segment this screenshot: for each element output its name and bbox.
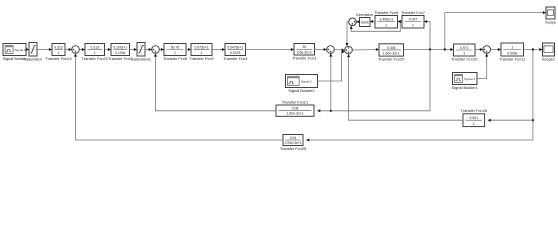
wire S3->S4 xyxy=(334,49,344,52)
wire TransferFcn26->S4 bottom xyxy=(347,54,463,120)
wire TransferFcn11->Scope1 xyxy=(524,48,543,51)
wire TransferFcn20->TransferFcn10 xyxy=(404,48,454,51)
junction node PD tap xyxy=(399,20,401,22)
svg-text:1: 1 xyxy=(511,45,513,49)
svg-text:60.76: 60.76 xyxy=(171,45,180,49)
wire SignalBuilder1->S6 bottom xyxy=(477,54,488,79)
svg-text:0.04: 0.04 xyxy=(290,136,297,140)
sum junction S3 xyxy=(327,46,335,54)
wire output branch down right side xyxy=(532,50,534,141)
wire bottom feedback to TransferFcn25 xyxy=(306,139,533,142)
svg-text:0.109s+1: 0.109s+1 xyxy=(113,45,127,49)
wire S2->TransferFcn5 xyxy=(159,48,164,51)
svg-text:1: 1 xyxy=(473,122,475,126)
transfer function 'Transfer Fcn3' xyxy=(223,44,247,61)
svg-text:Saturation1: Saturation1 xyxy=(131,56,151,61)
wire speed feedback branch down xyxy=(317,50,430,113)
scope 'Scope1' xyxy=(542,43,555,61)
junction node scope tap xyxy=(444,48,446,50)
transfer function 'Transfer Fcn20' xyxy=(378,44,405,62)
svg-text:2.94e-3s+1: 2.94e-3s+1 xyxy=(284,141,301,145)
signal builder 'Signal Builder' xyxy=(2,44,27,61)
transfer function 'Transfer Fcn5' xyxy=(163,44,187,61)
svg-text:Derivative: Derivative xyxy=(356,12,373,17)
wire Saturation->TransferFcn24 xyxy=(37,48,52,51)
svg-text:Transfer Fcn9: Transfer Fcn9 xyxy=(189,56,213,61)
svg-text:Transfer Fcn5: Transfer Fcn5 xyxy=(163,56,187,61)
junction node output tap xyxy=(532,48,534,50)
transfer function 'Transfer Fcn10' xyxy=(451,44,478,61)
transfer function 'Transfer Fcn24' xyxy=(45,44,72,61)
svg-text:Transfer Fcn26: Transfer Fcn26 xyxy=(461,108,487,113)
wire S4->TransferFcn20 xyxy=(352,48,379,51)
svg-text:0.075s+1: 0.075s+1 xyxy=(194,45,208,49)
wire TransferFcn22->TransferFcn2 xyxy=(105,48,112,51)
wire Derivative->S5 xyxy=(356,20,359,23)
wire TransferFcn8->Derivative xyxy=(370,20,375,23)
svg-text:0.0478: 0.0478 xyxy=(230,51,240,55)
svg-text:1: 1 xyxy=(94,51,96,55)
wire mid feedback to TransferFcn26 xyxy=(488,119,533,122)
scope 'Scope' xyxy=(545,7,556,24)
wire S5->S4 top xyxy=(346,22,349,46)
svg-text:Transfer Fcn8: Transfer Fcn8 xyxy=(374,10,398,15)
sum junction S2 xyxy=(152,46,160,54)
wire Saturation1->S2 xyxy=(145,48,152,51)
transfer function 'Transfer Fcn7' xyxy=(401,10,425,28)
transfer function 'Transfer Fcn21' (mirrored) xyxy=(276,99,314,116)
svg-text:Signal 1: Signal 1 xyxy=(464,77,475,81)
svg-text:1: 1 xyxy=(201,51,203,55)
svg-text:1: 1 xyxy=(174,51,176,55)
svg-text:1: 1 xyxy=(412,23,414,27)
wire TransferFcn1->S3 xyxy=(315,48,327,51)
wire SignalBuilder->Saturation xyxy=(26,48,29,51)
svg-text:Signal Builder1: Signal Builder1 xyxy=(452,85,478,90)
wire S1->TransferFcn22 xyxy=(79,48,85,51)
wire PD tap down to S5 bottom xyxy=(350,22,401,32)
sum junction S6 xyxy=(483,46,491,54)
transfer function 'Transfer Fcn26' (mirrored) xyxy=(461,108,487,126)
wire TransferFcn5->TransferFcn9 xyxy=(186,48,191,51)
junction node mid feedback xyxy=(532,119,534,121)
svg-text:1: 1 xyxy=(58,51,60,55)
signal builder 'Signal Builder2' xyxy=(286,75,318,93)
svg-text:Saturation: Saturation xyxy=(24,56,42,61)
wire TransferFcn9->TransferFcn3 xyxy=(212,48,225,51)
svg-text:0.005s: 0.005s xyxy=(507,51,517,55)
svg-text:Signal 1: Signal 1 xyxy=(15,48,26,52)
transfer function 'Transfer Fcn2' xyxy=(108,44,132,61)
svg-text:Transfer Fcn24: Transfer Fcn24 xyxy=(45,56,72,61)
wire TransferFcn3->TransferFcn1 xyxy=(246,48,295,51)
saturation 'Saturation' xyxy=(24,43,42,62)
svg-text:Transfer Fcn25: Transfer Fcn25 xyxy=(280,146,306,151)
svg-text:Scope: Scope xyxy=(545,19,556,24)
svg-text:Transfer Fcn2: Transfer Fcn2 xyxy=(108,56,132,61)
saturation 'Saturation1' xyxy=(131,43,151,62)
svg-text:1.60e-3s+1: 1.60e-3s+1 xyxy=(286,112,303,116)
svg-text:1: 1 xyxy=(463,51,465,55)
svg-text:Transfer Fcn10: Transfer Fcn10 xyxy=(451,56,478,61)
sum junction S5 xyxy=(349,18,357,26)
svg-text:3.459e-3: 3.459e-3 xyxy=(380,18,393,22)
svg-text:0.971: 0.971 xyxy=(460,46,469,50)
transfer function 'Transfer Fcn1' xyxy=(292,44,316,61)
wire tap->TransferFcn7 input xyxy=(424,20,430,50)
svg-text:Transfer Fcn3: Transfer Fcn3 xyxy=(223,56,247,61)
transfer function 'Transfer Fcn9' xyxy=(189,44,213,61)
transfer function 'Transfer Fcn11' xyxy=(499,43,525,61)
wire tap->Scope (top right) xyxy=(445,11,546,49)
svg-text:Transfer Fcn21: Transfer Fcn21 xyxy=(282,99,308,104)
transfer function 'Transfer Fcn22' xyxy=(82,44,108,61)
wire TransferFcn2->Saturation1 xyxy=(130,48,138,51)
svg-text:0.501: 0.501 xyxy=(470,116,479,120)
wire S6->TransferFcn11 xyxy=(491,48,502,51)
svg-text:Transfer Fcn20: Transfer Fcn20 xyxy=(378,57,405,62)
svg-text:0.045: 0.045 xyxy=(387,46,396,50)
junction node TF7 tap xyxy=(429,48,431,50)
wire TransferFcn24->S1 xyxy=(65,48,72,51)
wire SignalBuilder2->S4 xyxy=(318,50,345,81)
transfer function 'Transfer Fcn8' xyxy=(374,10,398,28)
junction node at TF21 branch xyxy=(330,110,332,112)
sum junction S1 xyxy=(72,46,80,54)
svg-text:Signal 2: Signal 2 xyxy=(301,79,312,83)
svg-text:1.60e-3s+1: 1.60e-3s+1 xyxy=(383,51,400,55)
svg-text:3.6e-3s+1: 3.6e-3s+1 xyxy=(297,50,312,54)
wire TransferFcn7->TransferFcn8 xyxy=(398,20,403,23)
svg-text:Transfer Fcn7: Transfer Fcn7 xyxy=(401,10,425,15)
svg-text:25: 25 xyxy=(302,45,306,49)
svg-text:0.109s: 0.109s xyxy=(115,51,125,55)
wire branch up to S3 bottom xyxy=(329,54,332,111)
svg-text:Scope1: Scope1 xyxy=(542,56,555,61)
svg-text:du/dt: du/dt xyxy=(361,20,369,24)
sum junction S4 xyxy=(345,46,353,54)
signal builder 'Signal Builder1' xyxy=(452,73,478,90)
svg-text:0.313: 0.313 xyxy=(54,45,63,49)
transfer function 'Transfer Fcn25' (mirrored) xyxy=(280,135,306,151)
wire TransferFcn10->S6 xyxy=(475,48,483,51)
svg-text:0.097: 0.097 xyxy=(409,18,418,22)
svg-text:0.08: 0.08 xyxy=(292,106,299,110)
svg-text:0.0478s+1: 0.0478s+1 xyxy=(227,45,243,49)
svg-text:Signal Builder2: Signal Builder2 xyxy=(288,88,314,93)
svg-text:1: 1 xyxy=(385,23,387,27)
svg-text:Transfer Fcn22: Transfer Fcn22 xyxy=(82,56,108,61)
derivative block 'Derivative' (du/dt) xyxy=(356,12,373,27)
wire TransferFcn25->S1 bottom xyxy=(74,54,283,141)
svg-text:Transfer Fcn11: Transfer Fcn11 xyxy=(499,56,525,61)
wire TransferFcn21->S2 bottom xyxy=(154,54,276,111)
svg-text:Transfer Fcn1: Transfer Fcn1 xyxy=(292,55,316,60)
svg-text:0.313: 0.313 xyxy=(91,45,100,49)
